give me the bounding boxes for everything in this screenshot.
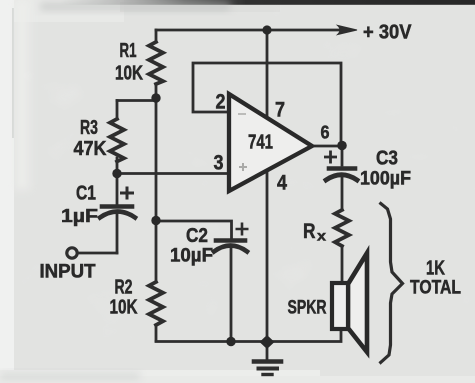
label C2 plus bbox=[236, 223, 249, 236]
node C2/rail junction bbox=[226, 337, 235, 346]
capacitor C1 bbox=[116, 174, 119, 205]
input terminal bbox=[67, 248, 77, 258]
wire pin7 supply bbox=[266, 30, 269, 117]
op-amp U1 741 bbox=[229, 94, 312, 191]
node R1/R3 junction bbox=[151, 93, 160, 102]
wire to input terminal bbox=[78, 252, 117, 255]
wire node to C2 node bbox=[155, 98, 158, 220]
brace 1K TOTAL bbox=[380, 203, 403, 364]
node supply/pin7 junction bbox=[262, 25, 271, 34]
capacitor C2 bbox=[216, 238, 245, 243]
ground bbox=[266, 341, 269, 360]
node C2 junction bbox=[151, 216, 160, 225]
wire pin3 net bbox=[117, 172, 229, 175]
wire top supply rail bbox=[156, 29, 341, 32]
wire C2 branch bbox=[156, 221, 232, 238]
resistor R1 bbox=[155, 30, 158, 98]
label C3 plus bbox=[324, 151, 337, 164]
wire R1 bottom to R3 top bbox=[117, 99, 156, 102]
wire pin2 feedback loop bbox=[193, 63, 341, 145]
wire bottom rail bbox=[156, 330, 341, 342]
speaker SPKR bbox=[332, 253, 367, 352]
wire output pin6 bbox=[312, 145, 342, 148]
resistor R2 bbox=[155, 220, 158, 341]
capacitor C3 bbox=[341, 145, 344, 165]
wire pin4 bbox=[266, 170, 269, 341]
resistor Rx bbox=[335, 210, 349, 246]
+30V supply arrow bbox=[338, 25, 358, 34]
paper texture noise bbox=[0, 0, 1, 1]
node ground junction bbox=[260, 335, 275, 349]
resistor R3 bbox=[116, 101, 119, 174]
node output pin6 junction bbox=[337, 141, 347, 151]
label C1 plus bbox=[120, 187, 134, 200]
node R3/C1/pin3 junction bbox=[112, 169, 121, 178]
